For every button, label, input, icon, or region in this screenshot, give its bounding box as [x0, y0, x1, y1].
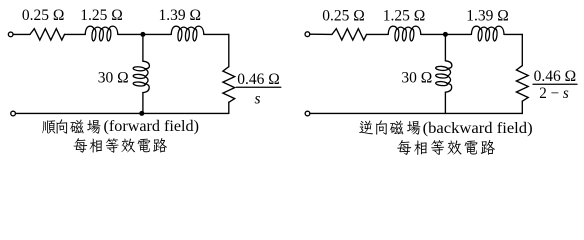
resistor R2 0.46Ω/s (rotor branch)	[223, 67, 235, 103]
svg-text:0.25 Ω: 0.25 Ω	[322, 7, 365, 24]
wire: right branch vertical (bottom)	[228, 102, 230, 113]
wire: R1 to L1	[65, 33, 86, 35]
wire: R1 to L1	[367, 33, 389, 35]
label: caption line 1 順向磁場(forward field)	[42, 119, 101, 134]
wire: bottom rail	[310, 112, 522, 114]
wire: magnetizing branch vertical (top)	[142, 34, 144, 61]
inductor L2 1.39Ω	[471, 26, 504, 41]
inductor Lm 30Ω (magnetizing)	[436, 61, 452, 92]
wire: magnetizing branch vertical (bottom)	[142, 93, 144, 114]
svg-text:0.46 Ω: 0.46 Ω	[237, 71, 280, 88]
terminal: input node bottom (backward)	[305, 111, 310, 116]
wire: L1 to L2 through top junction	[118, 33, 171, 35]
svg-text:(forward field): (forward field)	[104, 118, 200, 135]
label: caption line 1 逆向磁場(backward field)	[359, 120, 420, 134]
wire: L2 to right branch corner	[204, 33, 229, 35]
terminal: input node top (forward)	[8, 32, 13, 37]
wire: top-left from terminal to R1	[13, 33, 30, 35]
node: top junction dot	[443, 32, 448, 37]
inductor Lm 30Ω (magnetizing)	[133, 61, 149, 92]
svg-text:2 − s: 2 − s	[539, 85, 569, 102]
wire: L2 to right branch corner	[504, 33, 522, 35]
inductor L1 1.25Ω	[85, 26, 118, 41]
wire: magnetizing branch vertical (top)	[444, 34, 446, 60]
wire: bottom rail	[15, 112, 228, 114]
svg-text:30 Ω: 30 Ω	[98, 70, 129, 87]
svg-text:1.39 Ω: 1.39 Ω	[466, 7, 509, 24]
resistor R1 0.25Ω	[30, 29, 65, 40]
wire: right branch vertical (bottom)	[521, 101, 523, 113]
svg-text:1.25 Ω: 1.25 Ω	[383, 7, 426, 24]
wire: top-left from terminal to R1	[310, 33, 332, 35]
svg-text:1.39 Ω: 1.39 Ω	[159, 7, 202, 24]
node: top junction dot	[140, 32, 145, 37]
label: caption line 2 每相等效電路	[74, 138, 167, 153]
wire: L1 to L2 through top junction	[421, 33, 472, 35]
wire: right branch vertical (top)	[521, 34, 523, 65]
wire: magnetizing branch vertical (bottom)	[444, 92, 446, 113]
resistor R1 0.25Ω	[332, 29, 367, 40]
svg-text:0.25 Ω: 0.25 Ω	[22, 7, 65, 24]
terminal: input node top (backward)	[305, 32, 310, 37]
terminal: input node bottom (forward)	[11, 111, 16, 116]
label: caption line 2 每相等效電路 (backward)	[397, 140, 495, 155]
wire: right branch vertical (top)	[228, 34, 230, 66]
svg-text:30 Ω: 30 Ω	[401, 70, 432, 87]
svg-text:1.25 Ω: 1.25 Ω	[80, 7, 123, 24]
inductor L2 1.39Ω	[171, 26, 204, 41]
node: bottom junction dot	[139, 111, 144, 116]
svg-text:0.46 Ω: 0.46 Ω	[534, 68, 577, 85]
inductor L1 1.25Ω	[388, 26, 421, 41]
svg-text:s: s	[254, 90, 260, 107]
resistor R2 0.46Ω/(2-s) (rotor branch)	[516, 66, 528, 102]
svg-text:(backward field): (backward field)	[423, 118, 533, 137]
